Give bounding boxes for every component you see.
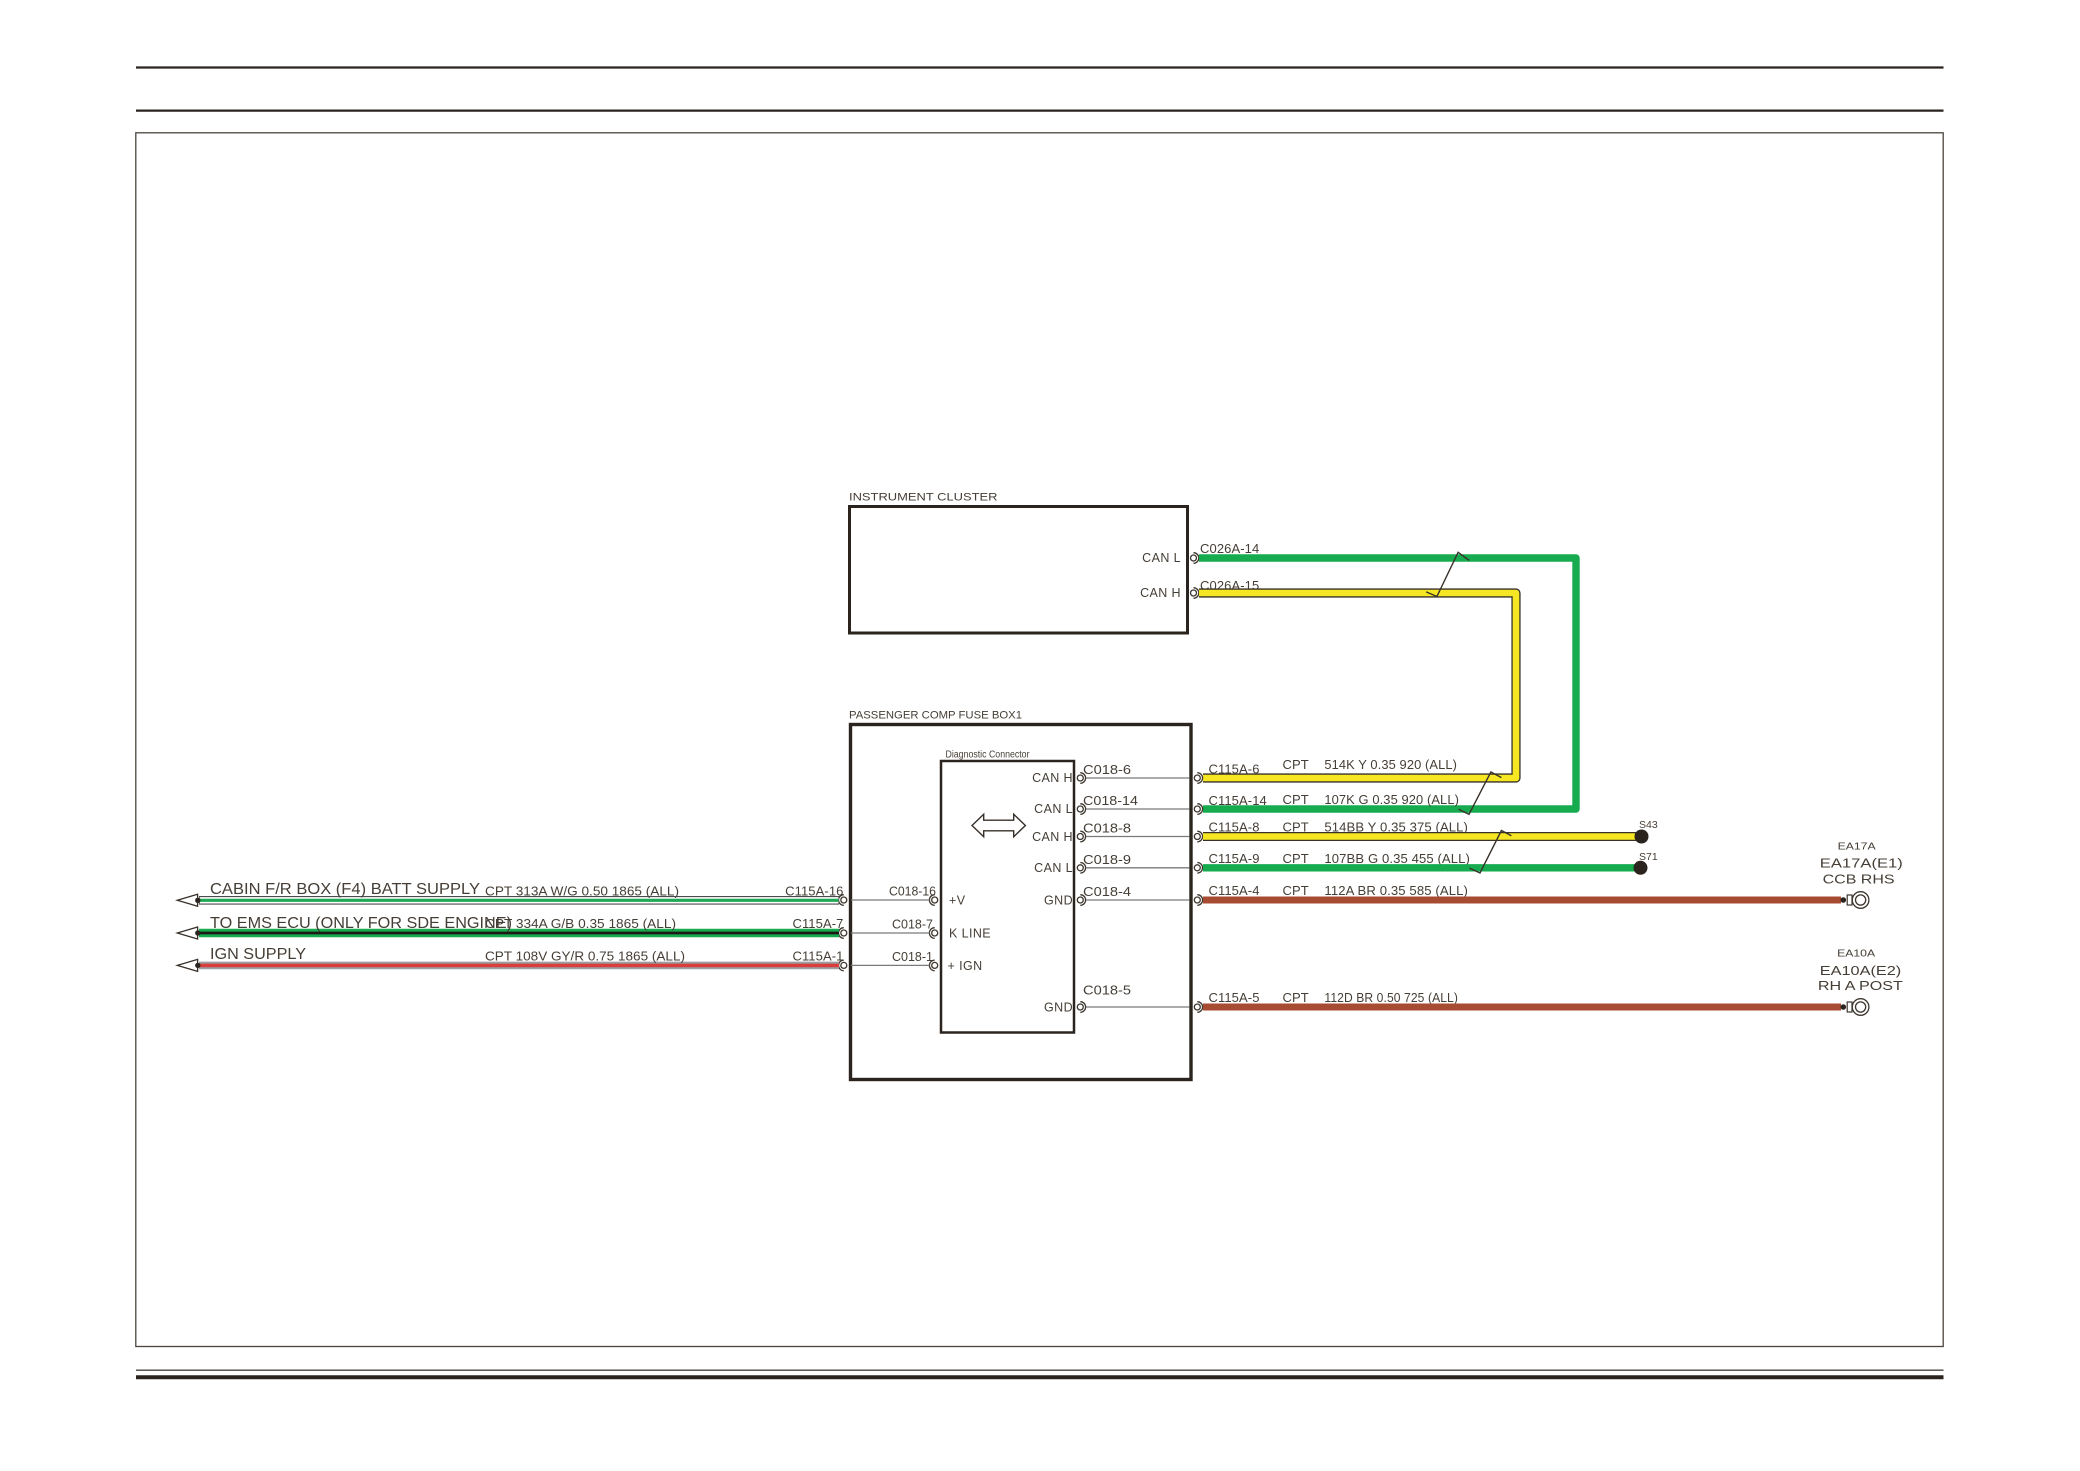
footer rule thin [136, 1369, 1944, 1371]
wire C115A-8 yellow outline [1203, 832, 1641, 841]
wire C115A-1 grey/red [199, 946, 839, 965]
svg-text:GND: GND [1044, 1001, 1073, 1015]
arrow (off-page, IGN supply) [177, 959, 200, 971]
wire C115A-7 green/black [199, 915, 839, 933]
svg-text:C018-4: C018-4 [1083, 885, 1131, 899]
splice S43 [1635, 819, 1658, 844]
fuse box pin C115A-14 [1194, 792, 1459, 814]
connector pin K LINE (C018-7) [929, 927, 991, 941]
svg-text:S43: S43 [1639, 819, 1658, 831]
svg-text:CPT: CPT [1283, 757, 1309, 772]
svg-text:C026A-14: C026A-14 [1200, 541, 1259, 556]
header rule second [136, 109, 1944, 111]
svg-text:CAN H: CAN H [1032, 771, 1073, 785]
wire CAN L green loop (C026A-14 to C115A-14) [1199, 558, 1576, 809]
arrow (off-page, EMS ECU) [177, 927, 200, 939]
connector pin +IGN (C018-1) [929, 959, 982, 973]
svg-text:C018-9: C018-9 [1083, 853, 1131, 867]
svg-text:CPT: CPT [1283, 792, 1309, 807]
svg-text:EA10A: EA10A [1837, 947, 1875, 959]
svg-text:112A BR 0.35 585 (ALL): 112A BR 0.35 585 (ALL) [1324, 883, 1468, 898]
connector pin GND (C018-4) [1044, 893, 1086, 907]
svg-text:C018-14: C018-14 [1083, 794, 1138, 808]
wire C018-1 [851, 950, 933, 966]
fuse box pin C115A-7 [792, 916, 846, 938]
wire C115A-9 green [1203, 864, 1641, 871]
svg-text:CAN H: CAN H [1032, 830, 1073, 844]
fuse box pin C115A-8 [1194, 820, 1468, 842]
wire C018-5 [1083, 984, 1190, 1008]
diagnostic connector box [941, 750, 1074, 1033]
svg-text:CABIN F/R BOX (F4) BATT SUPPLY: CABIN F/R BOX (F4) BATT SUPPLY [210, 881, 480, 898]
svg-text:107BB G 0.35 455 (ALL): 107BB G 0.35 455 (ALL) [1324, 851, 1470, 866]
svg-text:CCB RHS: CCB RHS [1823, 871, 1895, 886]
splice S71 [1634, 851, 1658, 875]
svg-text:C115A-9: C115A-9 [1209, 851, 1260, 866]
svg-text:C018-7: C018-7 [892, 918, 933, 932]
eyelet terminal EA10A [1818, 947, 1903, 1015]
svg-text:INSTRUMENT CLUSTER: INSTRUMENT CLUSTER [849, 492, 998, 504]
svg-text:EA17A: EA17A [1838, 840, 1876, 852]
wire C018-16 [851, 885, 936, 901]
wire C018-14 [1083, 794, 1190, 809]
arrow (off-page, batt supply) [177, 894, 200, 906]
wire C018-9 [1083, 853, 1190, 868]
svg-text:C115A-1: C115A-1 [792, 948, 843, 963]
svg-text:CPT: CPT [1283, 851, 1309, 866]
svg-text:EA17A(E1): EA17A(E1) [1820, 856, 1903, 871]
connector pin CAN H (C018-6) [1032, 771, 1085, 785]
svg-text:C018-1: C018-1 [892, 950, 933, 964]
svg-text:CPT: CPT [1283, 883, 1309, 898]
svg-text:RH A POST: RH A POST [1818, 978, 1903, 993]
fuse box pin C115A-5 [1194, 990, 1458, 1012]
svg-text:107K G 0.35 920 (ALL): 107K G 0.35 920 (ALL) [1324, 792, 1459, 807]
instrument cluster box U1 [849, 492, 1188, 634]
svg-text:C115A-5: C115A-5 [1209, 990, 1260, 1005]
connector pin CAN L (C018-14) [1034, 802, 1085, 816]
svg-text:514K Y 0.35 920 (ALL): 514K Y 0.35 920 (ALL) [1324, 757, 1457, 772]
fuse box pin C115A-1 [792, 948, 846, 970]
svg-text:CPT 334A G/B 0.35 1865 (ALL): CPT 334A G/B 0.35 1865 (ALL) [485, 917, 676, 931]
svg-text:CAN L: CAN L [1034, 802, 1073, 816]
connector pin CAN L (C018-9) [1034, 861, 1085, 875]
svg-text:+ IGN: + IGN [948, 959, 983, 973]
wire C115A-8 yellow core [1203, 833, 1641, 840]
wire C115A-4 brown [1203, 897, 1841, 904]
wire C018-4 [1083, 885, 1190, 900]
twisted pair marker (cluster CAN pair) [1426, 552, 1469, 596]
svg-text:+V: +V [949, 894, 966, 908]
svg-text:C018-6: C018-6 [1083, 763, 1131, 777]
svg-text:PASSENGER COMP FUSE BOX1: PASSENGER COMP FUSE BOX1 [849, 709, 1022, 721]
header rule top [136, 66, 1944, 68]
wire C115A-5 brown [1203, 1004, 1841, 1011]
wire C018-7 [851, 918, 933, 934]
svg-text:C115A-6: C115A-6 [1209, 761, 1260, 776]
svg-text:TO EMS ECU (ONLY FOR SDE ENGIN: TO EMS ECU (ONLY FOR SDE ENGINE) [210, 915, 512, 932]
wire CAN H yellow loop (C026A-15 to C115A-6) outline [1199, 593, 1516, 778]
svg-text:C018-5: C018-5 [1083, 984, 1131, 998]
fuse box pin C115A-6 [1194, 757, 1457, 783]
twisted pair marker (C115A-8 / C115A-9 pair) [1470, 831, 1512, 874]
svg-text:CAN L: CAN L [1034, 861, 1073, 875]
footer rule thick [136, 1375, 1944, 1379]
connector pin CAN H (C018-8) [1032, 830, 1085, 844]
wire C018-8 [1083, 822, 1190, 837]
wire C018-6 [1083, 763, 1190, 778]
wire CAN H yellow loop (C026A-15 to C115A-6) core [1199, 593, 1516, 778]
svg-text:C018-16: C018-16 [889, 885, 936, 899]
svg-text:C115A-4: C115A-4 [1209, 883, 1260, 898]
passenger comp fuse box [849, 709, 1191, 1079]
fuse box pin C115A-4 [1194, 883, 1468, 905]
pin C026A-15 [1191, 578, 1260, 598]
eyelet terminal EA17A [1820, 840, 1903, 908]
svg-text:CPT 108V GY/R 0.75 1865 (ALL): CPT 108V GY/R 0.75 1865 (ALL) [485, 949, 685, 963]
svg-text:S71: S71 [1639, 851, 1658, 863]
svg-text:CPT 313A W/G 0.50 1865 (ALL): CPT 313A W/G 0.50 1865 (ALL) [485, 884, 679, 898]
wire C115A-16 white/green [199, 881, 839, 900]
svg-text:GND: GND [1044, 893, 1073, 907]
svg-text:CAN H: CAN H [1140, 586, 1181, 600]
svg-text:K LINE: K LINE [949, 927, 991, 941]
pin C026A-14 [1191, 541, 1260, 563]
connector pin GND (C018-5) [1044, 1001, 1086, 1015]
svg-text:IGN SUPPLY: IGN SUPPLY [210, 946, 306, 963]
svg-text:CPT: CPT [1283, 990, 1309, 1005]
svg-text:Diagnostic Connector: Diagnostic Connector [946, 750, 1031, 761]
connector pin +V (C018-16) [929, 894, 965, 908]
bidirectional arrow symbol [972, 814, 1025, 836]
svg-text:C018-8: C018-8 [1083, 822, 1131, 836]
svg-text:EA10A(E2): EA10A(E2) [1820, 963, 1902, 978]
twisted pair marker (C115A-6 / C115A-14 pair) [1459, 772, 1502, 814]
fuse box pin C115A-16 [785, 883, 847, 905]
svg-text:CAN L: CAN L [1142, 551, 1181, 565]
fuse box pin C115A-9 [1194, 851, 1470, 873]
svg-text:C115A-7: C115A-7 [792, 916, 843, 931]
svg-text:C115A-14: C115A-14 [1209, 793, 1267, 808]
svg-text:112D BR 0.50 725 (ALL): 112D BR 0.50 725 (ALL) [1324, 990, 1458, 1005]
